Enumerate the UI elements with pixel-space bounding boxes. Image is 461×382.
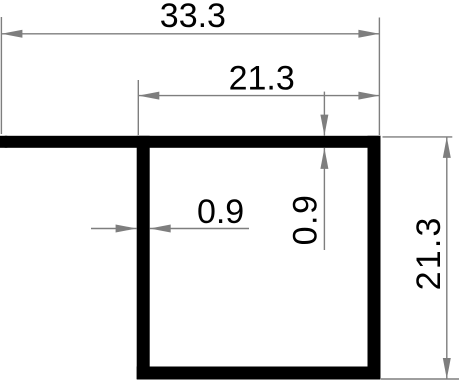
extension line right (33.3 / 21.3) xyxy=(378,18,380,136)
arrowhead 21.3 right xyxy=(358,92,379,100)
extension line bottom (21.3 right) xyxy=(381,378,459,380)
extension line left (33.3) xyxy=(0,17,2,134)
arrowhead 21.3 right up xyxy=(443,137,451,158)
svg-text:0.9: 0.9 xyxy=(197,193,244,231)
arrowhead 0.9 pointing right xyxy=(116,225,137,233)
extension line left (21.3 top) xyxy=(137,80,139,135)
arrowhead 33.3 right xyxy=(358,30,379,38)
svg-text:21.3: 21.3 xyxy=(410,215,448,290)
svg-text:33.3: 33.3 xyxy=(160,0,226,35)
profile left wall xyxy=(137,136,150,379)
profile top flange xyxy=(0,136,381,148)
leader line 0.9 right tail xyxy=(150,228,249,230)
svg-text:21.3: 21.3 xyxy=(229,60,295,98)
dimension line 21.3 top xyxy=(138,95,379,97)
dimension line 0.9 vertical lower xyxy=(323,148,325,250)
dimension line 0.9 vertical upper xyxy=(323,92,325,136)
profile right wall xyxy=(368,136,381,379)
leader line 0.9 left tail xyxy=(91,228,137,230)
profile bottom wall xyxy=(137,367,381,380)
arrowhead 33.3 left xyxy=(1,30,22,38)
arrowhead 21.3 right down xyxy=(443,358,451,379)
arrowhead 21.3 left xyxy=(138,92,159,100)
arrowhead 0.9 pointing left xyxy=(150,225,171,233)
svg-text:0.9: 0.9 xyxy=(287,194,325,246)
arrowhead 0.9 pointing down xyxy=(320,115,328,136)
dimension line 21.3 right xyxy=(446,137,448,379)
extension line top (21.3 right) xyxy=(383,136,453,138)
dimension line 33.3 xyxy=(1,33,379,35)
arrowhead 0.9 pointing up xyxy=(320,148,328,169)
